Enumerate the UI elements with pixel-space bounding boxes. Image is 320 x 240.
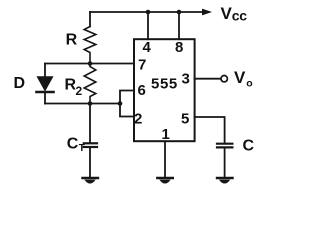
svg-text:D: D [14,75,26,92]
svg-text:6: 6 [138,82,146,99]
node junction R/R2/D/pin7 [88,61,93,66]
svg-text:8: 8 [175,39,183,56]
node junction R2/D/CT/trigger [88,101,93,106]
svg-text:C: C [67,136,79,153]
svg-text:T: T [79,143,85,154]
wire diode bottom branch [45,103,90,105]
svg-text:o: o [246,78,252,90]
capacitor CT [84,104,97,177]
output terminal circle [221,76,227,82]
diode D [37,64,54,104]
svg-text:4: 4 [143,39,152,56]
node junction pin4 on rail [146,10,151,15]
IC U1 555 body [134,39,195,141]
label Vcc [221,4,248,24]
resistor R zigzag [84,27,96,63]
svg-text:2: 2 [134,111,142,128]
ground under CT [83,178,99,184]
svg-text:C: C [243,138,255,155]
label R2 [65,77,83,99]
svg-text:555: 555 [151,76,178,93]
wire pin 8 to rail [178,12,180,39]
svg-text:3: 3 [182,71,190,88]
wire pin 1 to ground [164,141,166,176]
wire pin 7 from junction to IC [90,63,134,65]
svg-text:V: V [221,4,233,23]
resistor R2 zigzag [84,64,96,104]
svg-text:cc: cc [232,8,247,24]
svg-text:V: V [234,68,246,87]
svg-text:7: 7 [138,57,146,74]
label CT [67,136,85,155]
svg-text:5: 5 [181,111,189,128]
wire left branch from rail down to R [89,12,91,27]
wire pin 3 output [195,78,221,80]
Vcc arrowhead [202,9,212,16]
wire pin 4 to rail [147,12,149,39]
node junction pin8 on rail [177,10,182,15]
wire Vcc power rail [90,11,203,13]
node junction on bracket [118,101,123,106]
svg-text:2: 2 [76,84,83,98]
ground under C [217,178,233,184]
wire from junction to pins 6-2 bracket [90,103,120,105]
capacitor C [217,144,232,177]
label Vo [234,68,253,90]
wire diode top branch [45,63,90,65]
wire bracket pins 6 and 2 [120,91,134,117]
wire pin 5 to capacitor C [195,117,225,143]
ground under pin 1 [157,178,173,184]
svg-text:R: R [66,32,78,49]
